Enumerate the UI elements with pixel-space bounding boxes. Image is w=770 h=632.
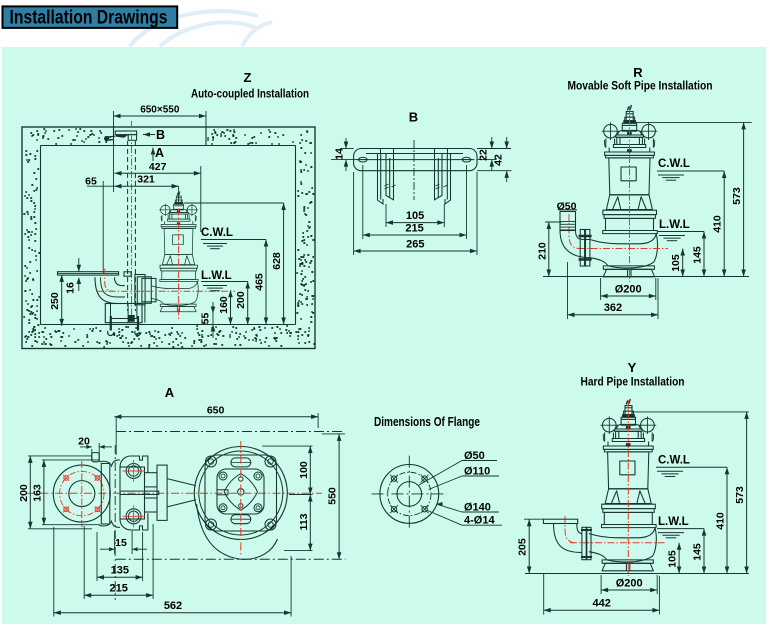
dim 65 xyxy=(102,181,104,273)
soft hose (corrugated) xyxy=(560,212,576,231)
svg-text:650×550: 650×550 xyxy=(140,105,180,116)
dim 105 Y xyxy=(678,543,680,574)
bracket plate xyxy=(354,149,477,171)
dim 200 A xyxy=(28,455,92,457)
pump unit R xyxy=(590,105,658,277)
svg-text:Z: Z xyxy=(244,70,252,85)
svg-text:20: 20 xyxy=(78,436,90,448)
dim 427 xyxy=(200,166,202,232)
svg-text:573: 573 xyxy=(731,187,743,205)
svg-text:362: 362 xyxy=(604,302,622,314)
svg-text:L.W.L: L.W.L xyxy=(659,219,690,231)
svg-text:410: 410 xyxy=(715,512,727,530)
left clip xyxy=(381,149,394,154)
flange detail bolt holes xyxy=(391,476,396,481)
svg-text:Movable Soft Pipe Installation: Movable Soft Pipe Installation xyxy=(568,81,713,93)
leader 4-O14 xyxy=(428,511,463,526)
dim 628 xyxy=(184,202,284,204)
discharge elbow xyxy=(95,277,128,303)
svg-text:562: 562 xyxy=(164,600,182,612)
soft pipe elbow xyxy=(560,231,590,258)
watermark swoosh xyxy=(130,11,272,46)
svg-text:B: B xyxy=(409,110,418,125)
dim 562 xyxy=(53,527,55,617)
svg-text:200: 200 xyxy=(18,484,30,502)
hard pipe top flange xyxy=(543,519,577,523)
svg-text:210: 210 xyxy=(536,242,548,260)
pump centerline R xyxy=(629,106,631,282)
svg-text:265: 265 xyxy=(406,239,424,251)
lifting slots plan xyxy=(231,458,251,467)
svg-text:105: 105 xyxy=(670,254,682,272)
bolt hole left xyxy=(359,157,368,162)
dim 113 xyxy=(284,550,313,552)
svg-text:4-Ø14: 4-Ø14 xyxy=(464,515,495,527)
pit concrete walls xyxy=(22,127,315,349)
dim 200 Z xyxy=(247,282,249,325)
svg-text:Ø200: Ø200 xyxy=(615,284,642,296)
svg-text:22: 22 xyxy=(478,149,490,161)
leader O110 xyxy=(429,476,463,490)
dim 573 R xyxy=(743,122,745,276)
svg-text:R: R xyxy=(633,65,643,80)
svg-text:628: 628 xyxy=(271,252,283,270)
guide rail (dashed) xyxy=(127,141,129,311)
pump plan centerlines xyxy=(240,441,242,556)
svg-text:Auto-coupled Installation: Auto-coupled Installation xyxy=(191,89,309,101)
svg-text:Hard Pipe Installation: Hard Pipe Installation xyxy=(581,377,685,389)
pump unit Z (auto-coupled) xyxy=(151,192,198,312)
svg-text:145: 145 xyxy=(692,543,704,561)
opening edge dashed bottom xyxy=(116,558,346,560)
dim 14 xyxy=(341,148,354,150)
discharge slot xyxy=(120,491,159,494)
dim 410 R xyxy=(723,171,725,277)
svg-text:200: 200 xyxy=(235,291,247,309)
anchor bolts xyxy=(111,316,138,331)
claw bolt top xyxy=(126,464,141,479)
motor frame plan xyxy=(205,455,277,531)
dim 22 xyxy=(477,148,511,150)
riser centerline Z xyxy=(105,269,113,292)
svg-text:Y: Y xyxy=(628,360,637,375)
pipe flange R xyxy=(580,230,584,267)
svg-text:205: 205 xyxy=(517,538,529,556)
flange detail crosshair xyxy=(372,493,447,495)
guide rail top bracket xyxy=(115,131,136,135)
svg-text:B: B xyxy=(156,128,165,142)
svg-text:410: 410 xyxy=(712,215,724,233)
volute top view xyxy=(194,447,287,540)
flange bolt holes xyxy=(64,476,69,481)
svg-text:550: 550 xyxy=(327,487,339,505)
discharge centerline R xyxy=(578,248,668,250)
dim 265 B xyxy=(353,172,355,255)
claw centerline xyxy=(114,445,116,600)
pit floor xyxy=(41,324,296,326)
svg-text:250: 250 xyxy=(49,292,61,310)
dim 145 Y xyxy=(703,529,705,574)
concrete stipple texture xyxy=(31,129,110,144)
guide claw plates xyxy=(124,272,131,276)
svg-text:A: A xyxy=(165,385,175,400)
svg-text:135: 135 xyxy=(111,565,129,577)
svg-text:573: 573 xyxy=(734,486,746,504)
svg-text:215: 215 xyxy=(405,223,423,235)
ground line R xyxy=(543,276,749,278)
dim 362 xyxy=(567,262,569,319)
left slot detail xyxy=(217,490,228,495)
dim 55 xyxy=(212,302,214,338)
svg-text:L.W.L: L.W.L xyxy=(201,270,232,282)
svg-text:14: 14 xyxy=(334,148,346,160)
pump centerline Z xyxy=(178,196,180,320)
svg-text:321: 321 xyxy=(137,174,155,186)
dim 210 xyxy=(545,221,562,223)
dim 20 xyxy=(91,449,93,461)
svg-text:442: 442 xyxy=(593,598,611,610)
dim 42 xyxy=(477,170,512,172)
plate centerline xyxy=(413,140,415,200)
elbow top flange / support bar xyxy=(58,272,119,275)
svg-text:Ø110: Ø110 xyxy=(464,465,490,477)
svg-text:Dimensions Of Flange: Dimensions Of Flange xyxy=(374,415,480,429)
dim 442 xyxy=(543,574,545,615)
pump unit Y xyxy=(589,399,657,571)
dim 105 B xyxy=(385,204,387,227)
svg-text:A: A xyxy=(155,146,164,160)
svg-text:100: 100 xyxy=(298,461,310,479)
svg-text:427: 427 xyxy=(149,161,167,173)
dim 321 xyxy=(115,185,179,187)
svg-text:160: 160 xyxy=(218,296,230,314)
title bar xyxy=(3,6,178,28)
svg-text:Ø50: Ø50 xyxy=(557,201,577,213)
dim 573 Y xyxy=(746,412,748,574)
leader O50 xyxy=(419,461,462,486)
dim 145 R xyxy=(703,232,705,277)
inner frame plan xyxy=(217,469,264,514)
svg-text:42: 42 xyxy=(493,154,505,166)
dim 205 xyxy=(524,518,543,520)
guide rail centerline xyxy=(131,121,133,318)
dim 163 xyxy=(42,459,100,461)
bolt hole right xyxy=(462,157,471,162)
dim 410 Y xyxy=(726,467,728,573)
svg-text:16: 16 xyxy=(65,282,77,294)
svg-text:145: 145 xyxy=(692,246,704,264)
dim O200 Y xyxy=(600,575,602,594)
dim 250 xyxy=(61,275,63,326)
svg-text:650: 650 xyxy=(207,405,225,417)
svg-text:105: 105 xyxy=(406,210,424,222)
svg-text:163: 163 xyxy=(31,484,43,502)
dim 160 xyxy=(190,289,231,291)
right clip xyxy=(435,149,448,154)
flange centerlines xyxy=(26,492,322,494)
pump centerline Y xyxy=(627,400,629,576)
opening edge dashed top xyxy=(116,431,345,433)
svg-text:L.W.L: L.W.L xyxy=(658,516,689,528)
pipe flange Y xyxy=(582,527,586,559)
dim 105 R xyxy=(682,249,684,277)
dim 215 B xyxy=(362,165,364,239)
svg-text:C.W.L: C.W.L xyxy=(658,455,690,467)
dim 465 xyxy=(265,240,267,325)
svg-text:C.W.L: C.W.L xyxy=(201,227,233,239)
svg-text:113: 113 xyxy=(298,513,310,530)
connector flange plate xyxy=(157,465,167,520)
discharge centerline Z xyxy=(96,290,235,292)
ground line Y xyxy=(525,573,749,575)
leader O140 xyxy=(438,505,463,513)
svg-text:C.W.L: C.W.L xyxy=(658,158,690,170)
top extension R xyxy=(633,121,752,123)
svg-text:215: 215 xyxy=(110,583,128,595)
connector blocks xyxy=(145,473,158,487)
volute spiral sweep xyxy=(197,504,278,559)
dim 16 xyxy=(78,258,80,272)
guide claw block xyxy=(120,467,145,519)
svg-text:65: 65 xyxy=(85,176,97,188)
svg-text:Ø200: Ø200 xyxy=(616,578,643,590)
dim 550 xyxy=(322,433,345,435)
nose to volute xyxy=(167,479,196,507)
dim 650 xyxy=(115,417,117,455)
dim 15 xyxy=(114,531,116,554)
svg-text:Ø50: Ø50 xyxy=(464,450,485,462)
seat plate xyxy=(101,464,110,525)
svg-text:465: 465 xyxy=(254,273,266,291)
center hub xyxy=(224,474,257,511)
inlet flange circle xyxy=(53,465,110,522)
dim 650x550 xyxy=(113,111,115,192)
coupling base stand xyxy=(105,304,142,323)
svg-text:Installation Drawings: Installation Drawings xyxy=(10,7,168,28)
dim 100 xyxy=(262,445,313,447)
discharge centerline Y xyxy=(570,542,666,544)
flange bolt circle xyxy=(60,471,104,515)
top extension Y xyxy=(632,411,749,413)
dim 135 xyxy=(96,532,98,581)
svg-text:105: 105 xyxy=(667,550,679,568)
svg-text:Ø140: Ø140 xyxy=(464,501,491,513)
hard pipe elbow xyxy=(554,524,582,553)
svg-text:15: 15 xyxy=(115,537,127,549)
flange detail circles xyxy=(380,465,439,524)
svg-text:55: 55 xyxy=(200,313,212,325)
dim O200 R xyxy=(600,278,602,300)
dim 215 A xyxy=(83,526,85,599)
claw bolt bottom xyxy=(126,509,141,524)
